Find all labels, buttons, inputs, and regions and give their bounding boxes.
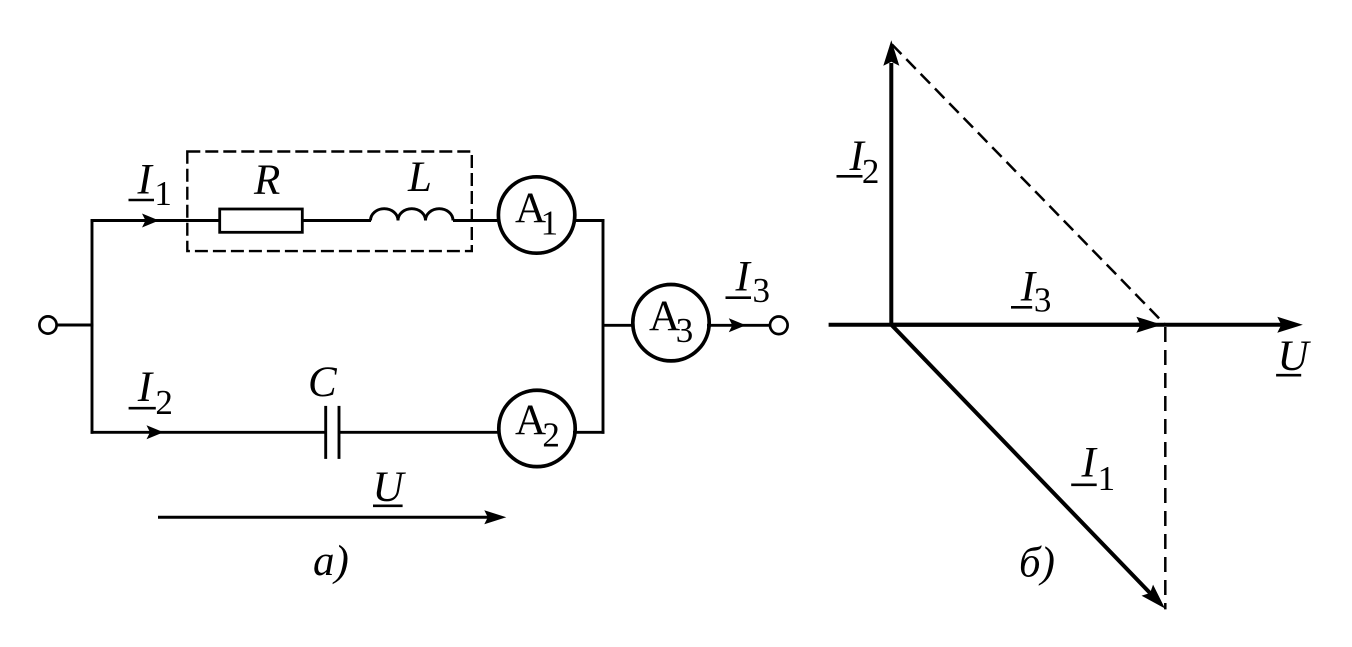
wire capacitor to ammeter A2 [339, 431, 500, 434]
dashed construction line (vertical) [1164, 327, 1167, 609]
input terminal [39, 316, 56, 333]
svg-text:а): а) [313, 538, 349, 585]
wire A1 to right bus [573, 219, 604, 222]
dashed box around R-L branch [187, 152, 472, 252]
vector I1 [891, 325, 1151, 594]
wire top branch left segment [91, 219, 220, 222]
inductor L [371, 209, 454, 221]
resistor R [220, 209, 303, 232]
wire inductor to ammeter A1 [453, 219, 500, 222]
wire bottom branch left segment [91, 431, 326, 434]
wire input terminal to node [57, 324, 94, 327]
svg-text:3: 3 [1034, 281, 1052, 320]
wire right vertical bus [602, 219, 605, 434]
voltage arrow U [158, 516, 489, 519]
wire A2 to right bus [573, 431, 604, 434]
svg-text:1: 1 [154, 174, 172, 213]
svg-text:I: I [735, 254, 752, 301]
svg-text:C: C [308, 359, 338, 406]
ammeter A3 [633, 285, 709, 361]
wire left vertical bus [91, 219, 94, 434]
svg-text:U: U [1278, 333, 1312, 380]
svg-text:U: U [373, 464, 407, 511]
svg-text:2: 2 [155, 383, 173, 422]
svg-text:1: 1 [541, 204, 559, 243]
wire between resistor and inductor [302, 219, 371, 222]
vector I3 [891, 323, 1142, 327]
dashed construction line (parallel to I1) [892, 45, 1165, 325]
vector I2 [889, 63, 893, 325]
svg-text:I: I [137, 364, 154, 411]
ammeter A1 [498, 177, 574, 253]
svg-text:A: A [515, 397, 546, 444]
svg-text:1: 1 [1098, 459, 1116, 498]
capacitor C [324, 406, 327, 459]
current arrow I3 [729, 318, 746, 332]
svg-text:2: 2 [542, 416, 560, 455]
ammeter A2 [499, 390, 575, 466]
wire bus to ammeter A3 [603, 324, 635, 327]
svg-text:I: I [137, 156, 154, 203]
svg-text:I: I [1081, 440, 1098, 487]
svg-text:2: 2 [862, 152, 880, 191]
wire A3 to output terminal [707, 324, 770, 327]
svg-text:L: L [407, 154, 432, 201]
svg-text:б): б) [1019, 540, 1055, 587]
output terminal [770, 317, 788, 335]
svg-text:R: R [253, 157, 280, 204]
svg-text:3: 3 [753, 271, 771, 310]
current arrow I1 [142, 214, 159, 228]
current arrow I2 [147, 425, 164, 439]
svg-text:3: 3 [676, 311, 694, 350]
axis U [829, 323, 1283, 327]
